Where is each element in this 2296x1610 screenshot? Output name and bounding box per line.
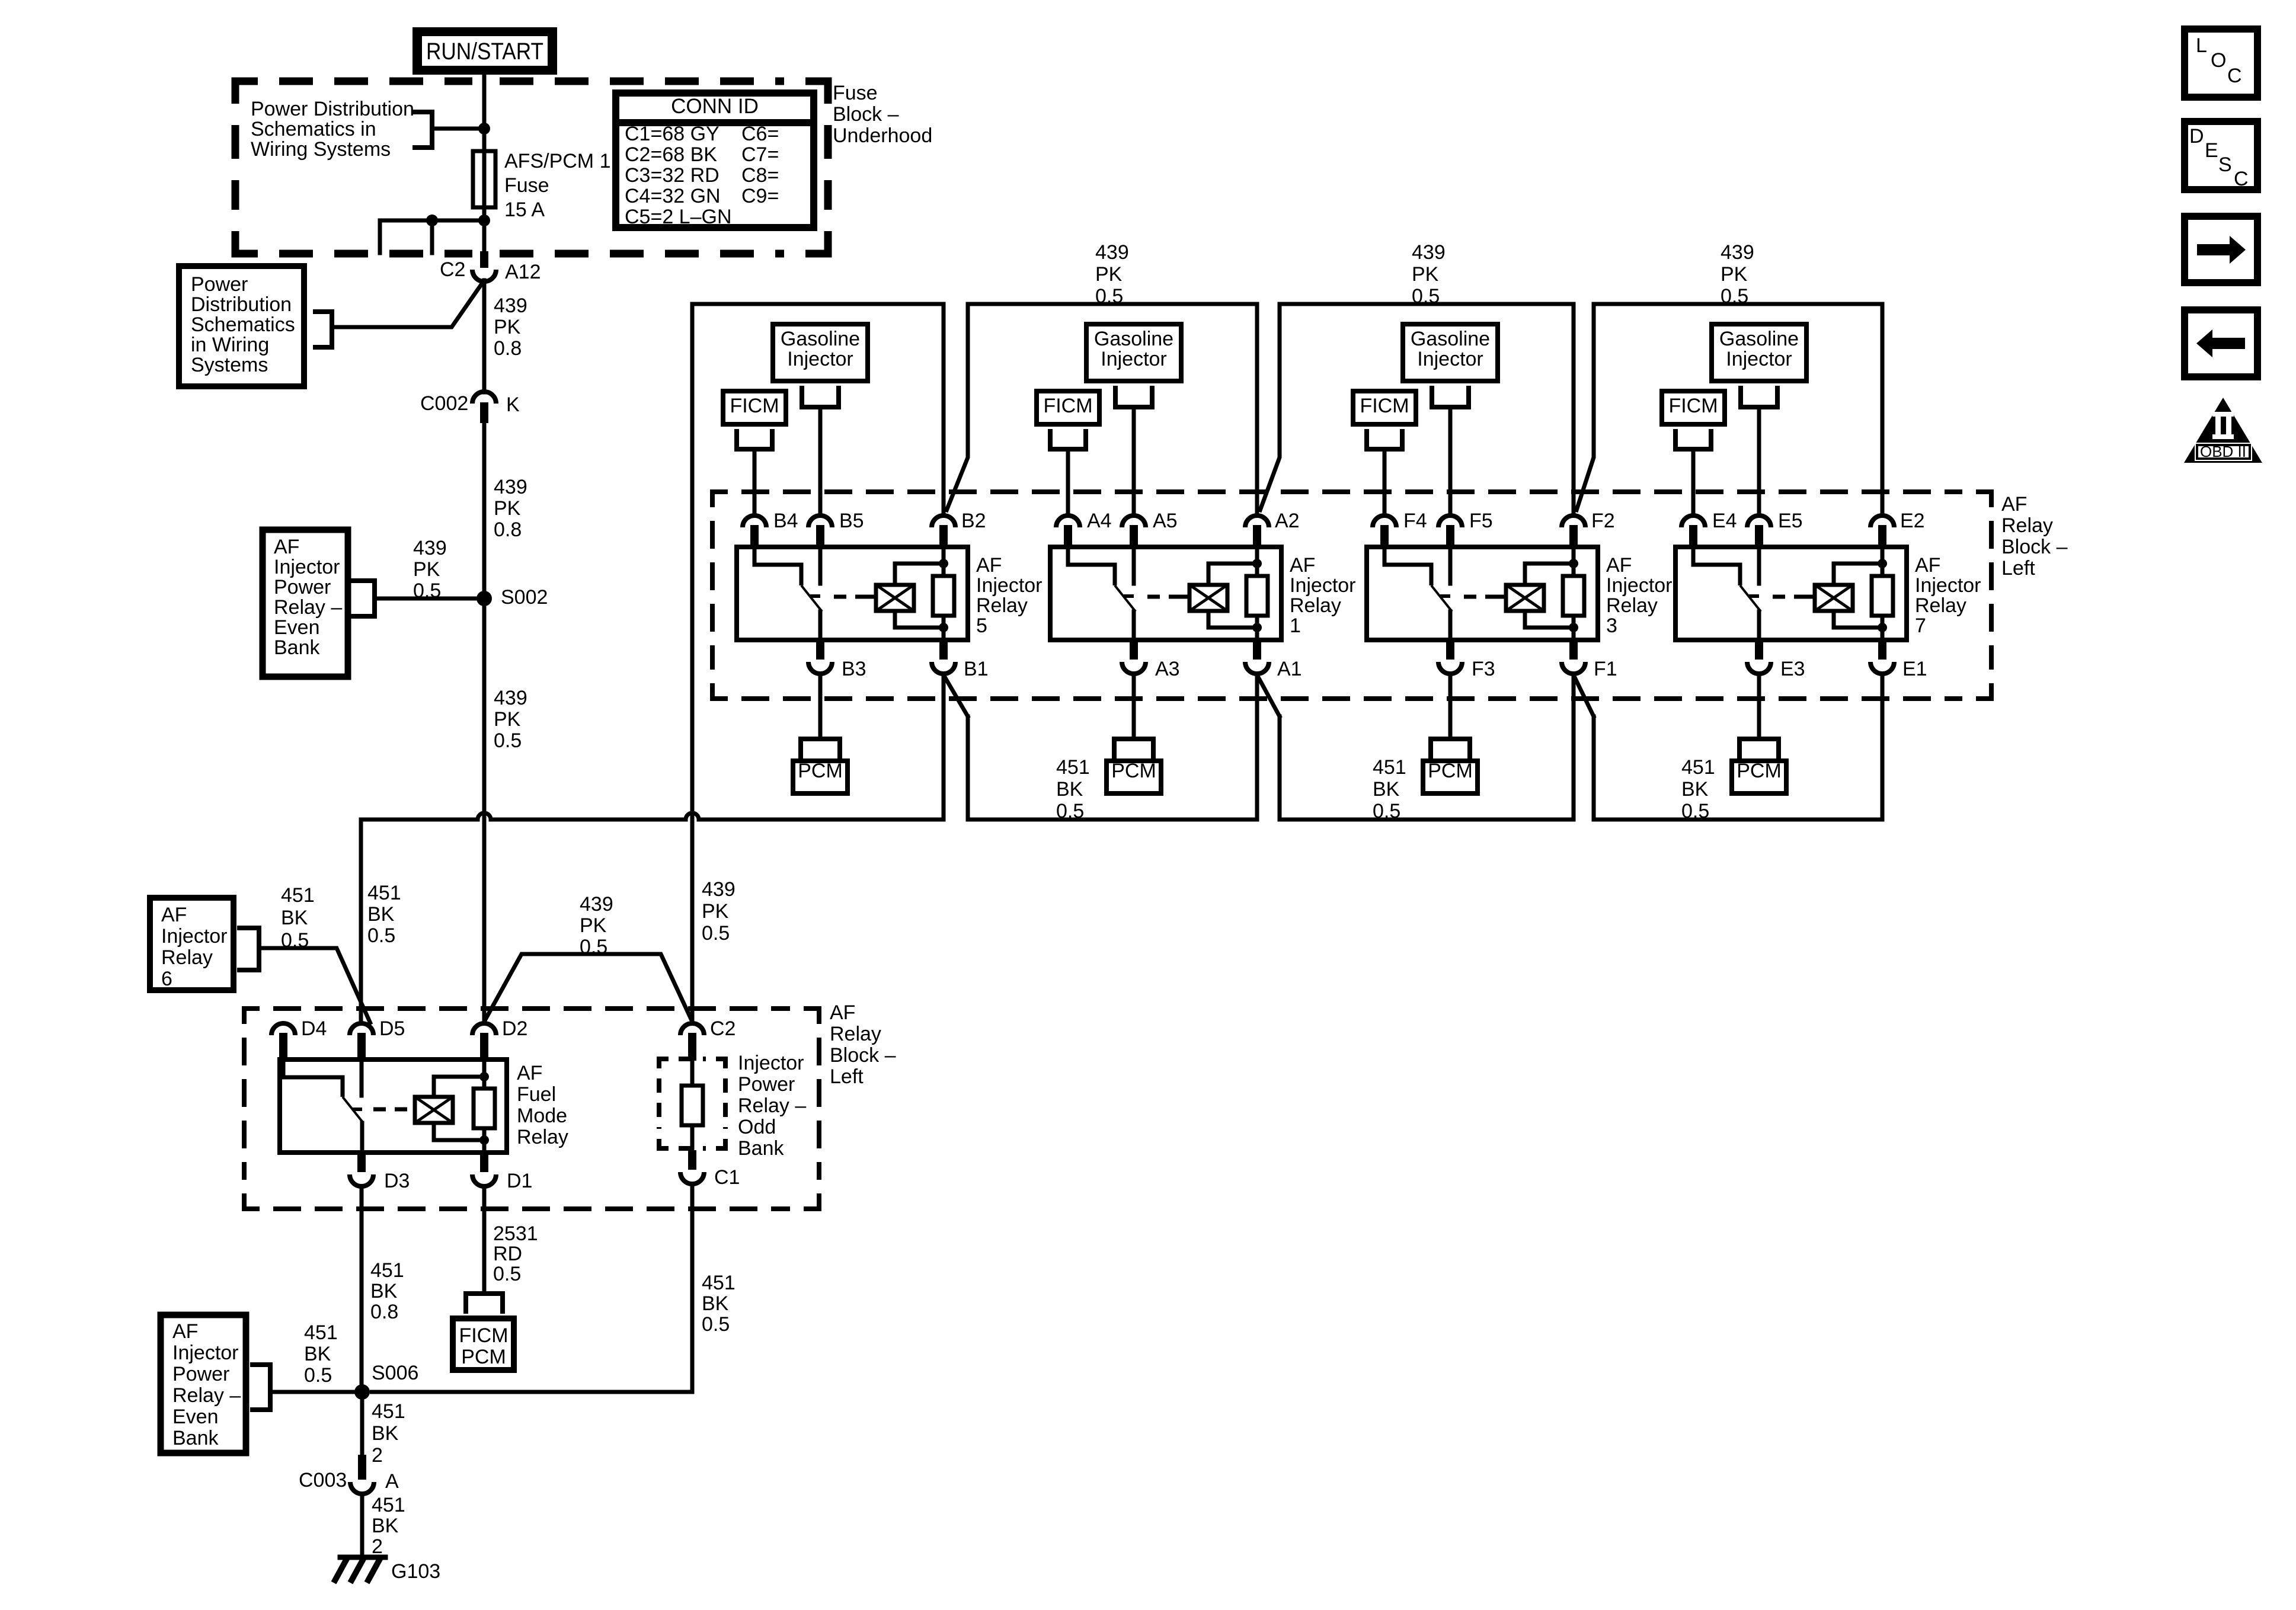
ground G103 <box>340 1555 385 1560</box>
svg-text:E3: E3 <box>1780 658 1805 680</box>
wire gasoline injector to connector E5 <box>1757 407 1761 514</box>
svg-text:6: 6 <box>161 968 172 990</box>
svg-text:C1: C1 <box>714 1166 740 1189</box>
svg-text:Relay: Relay <box>830 1023 881 1045</box>
svg-text:PCM: PCM <box>461 1346 506 1368</box>
connector B2 <box>932 516 955 527</box>
svg-text:0.5: 0.5 <box>493 1263 521 1285</box>
svg-text:D3: D3 <box>384 1170 410 1192</box>
connector E4 <box>1681 516 1705 527</box>
wire diagonal B1 to box A <box>944 675 968 716</box>
svg-text:Bank: Bank <box>274 636 320 659</box>
wire 439 PK 0.5 (even bank relay to S002) <box>375 597 484 601</box>
relay 1 actuator link <box>1147 595 1189 599</box>
wire 439 PK 0.5 routing loop (top edge box A) <box>968 302 1257 306</box>
svg-text:E: E <box>2205 139 2218 162</box>
svg-text:RD: RD <box>493 1243 522 1265</box>
svg-text:D2: D2 <box>502 1017 527 1040</box>
svg-text:B1: B1 <box>964 658 989 680</box>
node: junction above fuse <box>478 123 490 135</box>
connector F2 <box>1562 516 1585 527</box>
wire 451 BK 0.5 (even bank relay to S006) <box>270 1390 362 1394</box>
svg-text:Relay: Relay <box>1606 594 1658 617</box>
wire below connector B1 down to bottom edge <box>942 675 946 820</box>
svg-text:G103: G103 <box>391 1560 440 1583</box>
svg-text:451: 451 <box>367 882 401 904</box>
wire 451 BK 0.5 (bus down to D5) <box>359 820 363 1022</box>
svg-text:Injector: Injector <box>738 1052 804 1074</box>
svg-text:C2=68 BK: C2=68 BK <box>625 143 717 166</box>
svg-text:Injector: Injector <box>161 925 228 948</box>
icon OBD II <box>2184 398 2262 463</box>
svg-text:Injector: Injector <box>787 348 853 370</box>
svg-text:E4: E4 <box>1712 510 1737 532</box>
svg-text:AF: AF <box>517 1062 542 1084</box>
svg-text:Injector: Injector <box>1290 574 1356 597</box>
connector C002 / K <box>472 392 496 404</box>
svg-text:AF: AF <box>172 1320 198 1343</box>
wire 451 BK 0.5 (C1 down and left to S006) <box>370 1185 692 1392</box>
svg-text:Systems: Systems <box>191 354 268 376</box>
svg-text:E2: E2 <box>1900 510 1925 532</box>
svg-text:439: 439 <box>494 687 527 709</box>
svg-text:B3: B3 <box>842 658 866 680</box>
svg-text:Gasoline: Gasoline <box>781 328 860 350</box>
wire left edge box F with diagonal to connector A2 <box>1259 304 1280 512</box>
svg-text:PCM: PCM <box>1111 760 1156 782</box>
svg-text:A12: A12 <box>505 261 541 283</box>
relay 3 coil <box>1506 585 1544 611</box>
relay AF Injector Relay 5 <box>737 547 968 640</box>
svg-text:0.8: 0.8 <box>494 518 522 541</box>
svg-text:D5: D5 <box>379 1017 405 1040</box>
svg-text:B5: B5 <box>839 510 864 532</box>
connector F5 <box>1438 516 1462 527</box>
svg-text:0.5: 0.5 <box>1681 800 1709 822</box>
svg-text:439: 439 <box>413 537 447 559</box>
relay AF Injector Relay 7 <box>1675 547 1907 640</box>
wire: branch to Power Distribution Schematics box <box>332 280 484 327</box>
svg-text:451: 451 <box>372 1494 405 1516</box>
wire gasoline injector to connector A5 <box>1132 407 1136 514</box>
box AF Injector Power Relay - Even Bank (upper left) <box>263 530 348 677</box>
wire right edge box B down to connector B2 <box>942 304 946 514</box>
svg-text:451: 451 <box>1681 756 1715 779</box>
node: junction on other-circuit branch <box>426 215 438 226</box>
svg-text:Fuel: Fuel <box>517 1083 556 1106</box>
svg-text:F3: F3 <box>1472 658 1495 680</box>
svg-text:FICM: FICM <box>459 1324 508 1347</box>
svg-text:439: 439 <box>1095 241 1129 264</box>
relay AF Fuel Mode Relay <box>280 1060 507 1153</box>
icon LOC <box>2185 29 2257 97</box>
fuel mode relay fixed contact (from D5) <box>360 1060 364 1096</box>
relay 5 resistor <box>942 547 946 576</box>
wire 451 BK 2 (S006 down to C003) <box>360 1392 364 1459</box>
svg-text:BK: BK <box>370 1280 398 1302</box>
svg-text:1: 1 <box>1290 614 1301 637</box>
wire 451 BK 0.5 bus (bottom edge box B with hops over 439 feeds) <box>361 813 944 820</box>
svg-text:451: 451 <box>1056 756 1090 779</box>
component PCM (relay 3 control) <box>1428 739 1433 756</box>
svg-text:0.8: 0.8 <box>494 337 522 360</box>
svg-text:AF: AF <box>1290 554 1315 577</box>
svg-text:S: S <box>2218 153 2232 176</box>
svg-text:AF: AF <box>2001 493 2027 516</box>
svg-text:Distribution: Distribution <box>191 293 292 316</box>
connector E1 <box>1878 640 1886 660</box>
wire below connector A1 down to bottom edge <box>1255 675 1259 820</box>
svg-text:0.5: 0.5 <box>702 1313 730 1336</box>
svg-text:D: D <box>2189 125 2204 148</box>
connector A1 <box>1253 640 1261 660</box>
svg-text:FICM: FICM <box>1668 395 1718 417</box>
svg-text:451: 451 <box>304 1321 338 1344</box>
svg-text:5: 5 <box>976 614 987 637</box>
wire below connector F1 down to bottom edge <box>1572 675 1576 820</box>
icon DESC <box>2185 121 2257 190</box>
svg-text:PK: PK <box>494 497 521 520</box>
wire 2531 RD 0.5 (D1 to FICM PCM) <box>482 1188 487 1294</box>
connector B5 <box>808 516 832 527</box>
svg-text:Block –: Block – <box>833 103 899 126</box>
relay 3 resistor <box>1572 547 1576 576</box>
relay AF Injector Relay 1 <box>1050 547 1281 640</box>
svg-text:C4=32 GN: C4=32 GN <box>625 185 721 207</box>
svg-text:Relay: Relay <box>1290 594 1341 617</box>
relay 1 resistor <box>1255 547 1259 576</box>
svg-text:Power: Power <box>274 576 331 598</box>
svg-text:AF: AF <box>1915 554 1940 577</box>
svg-text:451: 451 <box>1373 756 1406 779</box>
svg-text:Injector: Injector <box>976 574 1043 597</box>
wire 451 BK chain (bottom edge box F) <box>1280 818 1574 822</box>
relay 3 fixed contact (from F5) <box>1448 547 1453 584</box>
wire: branch to Power Distribution Schematics (top) <box>432 127 484 131</box>
svg-text:Gasoline: Gasoline <box>1094 328 1173 350</box>
svg-text:C3=32 RD: C3=32 RD <box>625 164 720 187</box>
svg-text:PK: PK <box>413 558 440 581</box>
wire A3 to PCM <box>1132 675 1136 739</box>
svg-text:3: 3 <box>1606 614 1617 637</box>
svg-text:PK: PK <box>1721 263 1748 286</box>
svg-text:Fuse: Fuse <box>504 174 549 197</box>
component FICM (control for relay 7) <box>1662 391 1725 424</box>
connector E2 <box>1870 516 1894 527</box>
svg-text:Fuse: Fuse <box>833 82 878 104</box>
svg-text:451: 451 <box>370 1259 404 1282</box>
svg-text:K: K <box>506 393 520 416</box>
svg-text:C2: C2 <box>710 1017 736 1040</box>
fuel mode relay switch (from D4) <box>283 1060 343 1097</box>
svg-text:0.5: 0.5 <box>304 1364 332 1387</box>
svg-text:439: 439 <box>580 893 613 916</box>
icon back arrow <box>2185 310 2257 377</box>
svg-text:PK: PK <box>494 316 521 338</box>
svg-text:PK: PK <box>702 900 729 923</box>
component FICM (control for relay 3) <box>1353 391 1416 424</box>
svg-text:BK: BK <box>1056 778 1083 801</box>
wire FICM to connector F4 <box>1383 449 1387 514</box>
connector A4 <box>1056 516 1080 527</box>
svg-text:Relay: Relay <box>1915 594 1966 617</box>
svg-text:Injector: Injector <box>1606 574 1673 597</box>
relay Injector Power Relay - Odd Bank (dashed) <box>659 1059 669 1068</box>
svg-text:B2: B2 <box>961 510 986 532</box>
component Gasoline Injector (F5 load) <box>1403 324 1498 381</box>
wire left edge box E with diagonal to connector F2 <box>1576 304 1594 512</box>
svg-text:C: C <box>2234 168 2249 190</box>
wire E3 to PCM <box>1757 675 1761 739</box>
wire below connector E1 down to bottom edge <box>1881 675 1885 820</box>
connector C2 (odd bank) <box>680 1023 704 1035</box>
svg-text:E5: E5 <box>1778 510 1803 532</box>
svg-text:L: L <box>2196 34 2207 57</box>
fuse AFS/PCM 1 15 A <box>482 129 487 220</box>
connector C003 / A <box>358 1455 366 1480</box>
svg-text:FICM: FICM <box>1043 395 1092 417</box>
svg-text:Block –: Block – <box>2001 536 2068 558</box>
svg-text:Gasoline: Gasoline <box>1719 328 1799 350</box>
svg-text:Left: Left <box>2001 557 2035 580</box>
relay 3 switch (from F4) <box>1384 547 1431 585</box>
svg-text:Injector: Injector <box>274 556 340 578</box>
relay 7 actuator link <box>1773 595 1815 599</box>
svg-text:439: 439 <box>1412 241 1446 264</box>
svg-text:Relay –: Relay – <box>172 1384 241 1407</box>
svg-text:439: 439 <box>494 295 527 317</box>
wire gasoline injector to connector F5 <box>1448 407 1453 514</box>
connector A5 <box>1122 516 1146 527</box>
svg-text:7: 7 <box>1915 614 1926 637</box>
svg-text:C5=2 L–GN: C5=2 L–GN <box>625 206 732 228</box>
relay 7 resistor <box>1881 547 1885 576</box>
svg-text:FICM: FICM <box>1360 395 1409 417</box>
svg-text:D1: D1 <box>507 1170 532 1192</box>
svg-text:E1: E1 <box>1902 658 1927 680</box>
svg-text:0.5: 0.5 <box>281 929 309 952</box>
node S006 <box>354 1384 370 1400</box>
svg-text:RUN/START: RUN/START <box>426 39 543 65</box>
connector F3 <box>1446 640 1454 660</box>
svg-text:C8=: C8= <box>741 164 779 187</box>
svg-text:Bank: Bank <box>738 1137 784 1160</box>
box Power Distribution Schematics in Wiring Systems <box>179 266 304 386</box>
svg-text:BK: BK <box>702 1292 729 1315</box>
wire gasoline injector to connector B5 <box>818 407 823 514</box>
svg-text:451: 451 <box>372 1400 405 1423</box>
svg-text:451: 451 <box>702 1272 736 1294</box>
relay 1 fixed contact (from A5) <box>1132 547 1136 584</box>
component Gasoline Injector (E5 load) <box>1712 324 1806 381</box>
component FICM (control for relay 1) <box>1037 391 1099 424</box>
wire FICM to connector B4 <box>753 449 757 514</box>
svg-text:0.5: 0.5 <box>702 922 730 945</box>
svg-text:BK: BK <box>1373 778 1400 801</box>
wire 451 BK 0.8 (D3 down to S006) <box>360 1188 364 1392</box>
relay 1 coil <box>1189 585 1227 611</box>
wire 439 PK 0.5 routing loop (top edge box F) <box>1280 302 1574 306</box>
svg-text:Injector: Injector <box>1726 348 1792 370</box>
svg-text:A4: A4 <box>1087 510 1112 532</box>
component PCM (relay 7 control) <box>1737 739 1742 756</box>
svg-text:F5: F5 <box>1469 510 1493 532</box>
relay 7 switch (from E4) <box>1693 547 1740 585</box>
wire FICM to connector E4 <box>1691 449 1696 514</box>
svg-text:AF: AF <box>830 1001 855 1024</box>
svg-text:PK: PK <box>1412 263 1439 286</box>
svg-text:AF: AF <box>1606 554 1632 577</box>
svg-text:0.5: 0.5 <box>367 924 395 947</box>
svg-text:Relay: Relay <box>2001 514 2053 537</box>
svg-text:451: 451 <box>281 884 315 907</box>
svg-text:Block –: Block – <box>830 1044 896 1067</box>
component PCM (relay 5 control) <box>798 739 803 756</box>
connector D5 <box>350 1023 373 1035</box>
svg-text:A: A <box>385 1470 399 1493</box>
svg-text:BK: BK <box>304 1343 331 1365</box>
svg-text:F2: F2 <box>1591 510 1615 532</box>
svg-text:Relay –: Relay – <box>738 1094 806 1117</box>
svg-text:S002: S002 <box>501 586 548 609</box>
svg-text:Left: Left <box>830 1065 864 1088</box>
svg-text:O: O <box>2211 49 2226 72</box>
svg-text:Power: Power <box>191 273 248 296</box>
connector E5 <box>1747 516 1771 527</box>
box AF Injector Relay 6 <box>150 898 234 990</box>
relay 5 actuator link <box>834 595 876 599</box>
svg-text:Schematics: Schematics <box>191 313 295 336</box>
wire 439 PK 0.5 (left edge of box B down to lower block C2) <box>690 304 695 1022</box>
svg-text:C: C <box>2227 65 2242 87</box>
connector D4 <box>271 1023 295 1035</box>
svg-text:A3: A3 <box>1155 658 1180 680</box>
svg-text:BK: BK <box>372 1422 399 1445</box>
table CONN ID <box>616 93 814 228</box>
svg-text:BK: BK <box>367 903 395 926</box>
connector E3 <box>1755 640 1763 660</box>
wire right edge box E down to connector E2 <box>1881 304 1885 514</box>
connector D1 <box>480 1153 488 1172</box>
wire 439 PK 0.5 branch (D2 to C2 odd bank) <box>484 954 692 1022</box>
connector C2 / A12 (fuse block output) <box>480 251 488 268</box>
node: junction below fuse <box>478 215 490 226</box>
svg-text:BK: BK <box>1681 778 1709 801</box>
component Gasoline Injector (B5 load) <box>773 324 868 381</box>
svg-text:PCM: PCM <box>1428 760 1473 782</box>
connector B1 <box>939 640 948 660</box>
wire: RUN/START down to fuse (ignition feed) <box>482 71 487 151</box>
AF Relay Block - Left (upper dashed box) <box>712 492 728 507</box>
svg-text:AF: AF <box>274 536 299 558</box>
svg-text:AF: AF <box>976 554 1002 577</box>
relay 5 fixed contact (from B5) <box>818 547 823 584</box>
svg-text:CONN ID: CONN ID <box>671 95 759 118</box>
wire 439 PK 0.5 routing loop (top edge box B) <box>692 302 944 306</box>
relay 7 fixed contact (from E5) <box>1757 547 1761 584</box>
svg-text:C2: C2 <box>440 258 465 281</box>
svg-text:C002: C002 <box>420 392 468 415</box>
svg-text:A2: A2 <box>1275 510 1300 532</box>
connector B4 <box>743 516 766 527</box>
wire right edge box A down to connector A2 <box>1255 304 1259 514</box>
connector B3 <box>816 640 824 660</box>
svg-text:Wiring Systems: Wiring Systems <box>251 138 391 161</box>
svg-text:Power: Power <box>172 1363 229 1385</box>
relay 7 coil <box>1815 585 1853 611</box>
connector A2 <box>1245 516 1269 527</box>
svg-text:PK: PK <box>494 708 521 731</box>
svg-text:C7=: C7= <box>741 143 779 166</box>
svg-text:PK: PK <box>580 914 607 937</box>
wire 451 BK chain (bottom edge box E) <box>1594 818 1882 822</box>
wire diagonal F1 to box E <box>1574 675 1594 716</box>
svg-text:Even: Even <box>274 616 320 639</box>
power source box RUN/START <box>412 27 557 75</box>
svg-text:Schematics in: Schematics in <box>251 118 376 140</box>
svg-text:BK: BK <box>281 907 308 929</box>
svg-text:Mode: Mode <box>517 1105 567 1127</box>
svg-text:OBD II: OBD II <box>2200 443 2246 460</box>
fuse block - underhood (dashed box) <box>235 81 258 104</box>
svg-text:2: 2 <box>372 1444 383 1467</box>
component FICM PCM <box>463 1294 468 1311</box>
svg-text:0.5: 0.5 <box>413 580 441 602</box>
fuel mode relay coil <box>415 1097 453 1123</box>
wire left edge box A with diagonal to connector B2 <box>946 304 968 512</box>
svg-text:C9=: C9= <box>741 185 779 207</box>
wire: branch to other circuits inside fuse block <box>380 219 484 223</box>
svg-text:in Wiring: in Wiring <box>191 334 269 356</box>
wire 451 BK 0.5 (relay 6 to D5) <box>259 948 371 1025</box>
svg-text:Power Distribution: Power Distribution <box>251 98 414 120</box>
svg-text:2531: 2531 <box>493 1222 538 1245</box>
svg-text:Power: Power <box>738 1073 795 1096</box>
relay 5 switch (from B4) <box>754 547 801 585</box>
svg-text:C003: C003 <box>299 1469 347 1491</box>
svg-text:Relay: Relay <box>976 594 1028 617</box>
component FICM (control for relay 5) <box>723 391 786 424</box>
svg-text:F1: F1 <box>1594 658 1617 680</box>
svg-text:C1=68 GY: C1=68 GY <box>625 123 720 145</box>
connector C1 <box>688 1150 696 1170</box>
svg-text:Injector: Injector <box>1417 348 1483 370</box>
svg-text:439: 439 <box>494 476 527 498</box>
svg-text:F4: F4 <box>1403 510 1427 532</box>
svg-text:Odd: Odd <box>738 1116 776 1138</box>
svg-text:439: 439 <box>702 878 736 901</box>
svg-text:PCM: PCM <box>1737 760 1782 782</box>
svg-text:Bank: Bank <box>172 1427 219 1449</box>
svg-text:PK: PK <box>1095 263 1123 286</box>
svg-text:Injector: Injector <box>1915 574 1981 597</box>
wire F3 to PCM <box>1448 675 1453 739</box>
wire B3 to PCM <box>818 675 823 739</box>
component PCM (relay 1 control) <box>1112 739 1117 756</box>
wire right edge box F down to connector F2 <box>1572 304 1576 514</box>
svg-text:Relay: Relay <box>517 1126 568 1148</box>
relay 1 switch (from A4) <box>1068 547 1115 585</box>
svg-text:B4: B4 <box>773 510 798 532</box>
svg-text:AF: AF <box>161 904 187 926</box>
svg-text:Gasoline: Gasoline <box>1411 328 1490 350</box>
svg-text:0.5: 0.5 <box>1056 800 1084 822</box>
box AF Injector Power Relay - Even Bank (lower left) <box>161 1315 246 1453</box>
svg-text:Relay: Relay <box>161 946 213 969</box>
svg-text:PCM: PCM <box>798 760 843 782</box>
connector A3 <box>1130 640 1138 660</box>
wire 451 BK chain (bottom edge box A) <box>968 818 1257 822</box>
